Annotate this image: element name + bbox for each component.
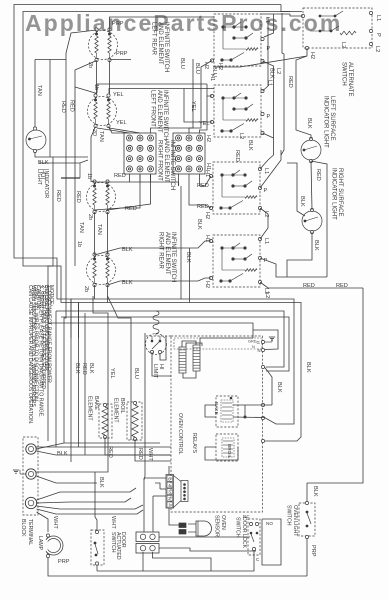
label 2b E3: [87, 214, 93, 220]
wire hi-limit bottom: [152, 352, 171, 376]
label BLK right column mid: [196, 219, 202, 230]
svg-text:N: N: [258, 348, 261, 353]
wire neutral lug fan-out: [36, 471, 95, 473]
svg-text:L2: L2: [275, 68, 281, 74]
svg-text:BROIL: BROIL: [226, 444, 232, 459]
terminal H2 S2: [210, 120, 213, 123]
wire WHT vertical: [144, 333, 145, 480]
label BLK above left ind: [306, 118, 312, 129]
svg-text:RED: RED: [287, 76, 293, 88]
svg-text:INFINITE SWITCH: INFINITE SWITCH: [162, 90, 168, 140]
wire lower YEL vertical: [93, 296, 108, 440]
wire E2 top feed diagonal: [75, 87, 97, 94]
door lock switch dashed box: [248, 519, 260, 555]
svg-text:BLK: BLK: [247, 140, 253, 151]
transformer primary winding: [179, 347, 186, 373]
wire bake relay to bus: [205, 405, 216, 417]
svg-text:RED: RED: [69, 100, 75, 112]
wire transformer bottom: [183, 371, 196, 378]
terminal GRD oven control: [261, 340, 264, 343]
svg-text:LIMIT: LIMIT: [152, 364, 158, 379]
svg-text:BLK: BLK: [74, 363, 80, 374]
svg-text:RED: RED: [197, 204, 209, 210]
svg-text:AND ELEMENT: AND ELEMENT: [156, 90, 162, 133]
oven control top right wire box: [253, 330, 278, 350]
terminal broil out: [261, 416, 264, 419]
wire grids to S3 H1: [200, 176, 212, 186]
svg-text:L1: L1: [267, 80, 273, 86]
terminal P S3: [258, 186, 261, 189]
wire broil relay wires: [205, 447, 238, 460]
connector pair block upper: [136, 532, 159, 542]
label INFINITE SWITCH AND ELEMENT LEFT REAR: [151, 22, 169, 72]
wire E3 to E4 chain: [94, 212, 96, 255]
wire lower BLU vertical: [108, 296, 132, 440]
label RED E3 left: [75, 191, 81, 203]
wire E1 to E2 chain left: [96, 61, 98, 95]
svg-text:1b: 1b: [76, 241, 82, 247]
wire BLK bus middle vertical: [180, 186, 182, 299]
wire bus D vertical: [79, 303, 302, 442]
label TAN pair lower: [78, 222, 84, 233]
label 1b grid left: [86, 173, 92, 179]
wire S2 L2 out: [263, 133, 274, 138]
alternate switch box: [303, 8, 372, 48]
svg-text:SWITCH: SWITCH: [235, 517, 241, 538]
wire dark stub: [61, 177, 80, 179]
svg-text:AppliancePartsPros.com: AppliancePartsPros.com: [25, 10, 342, 36]
svg-text:RIGHT FRONT: RIGHT FRONT: [157, 140, 163, 181]
wire door switch top: [95, 472, 97, 531]
oven control inner top dashed rect: [174, 338, 262, 349]
element E2 left front surface element: [88, 97, 117, 126]
terminal block lug 3: [25, 497, 36, 508]
svg-text:L1: L1: [375, 15, 381, 21]
svg-text:LEFT SURFACE: LEFT SURFACE: [329, 96, 335, 141]
label ALTERNATE SWITCH: [341, 62, 354, 96]
label LAMP: [37, 536, 43, 551]
terminal block dashed box: [23, 437, 38, 515]
svg-text:ELEMENT: ELEMENT: [113, 398, 119, 423]
wire hot light RED down to lower: [48, 266, 53, 323]
border outer step to alternate switch: [281, 5, 302, 12]
svg-text:L2: L2: [264, 292, 270, 298]
wire bake row: [233, 404, 265, 406]
wire BLK bus middle vertical 2: [189, 248, 191, 303]
svg-text:TAN: TAN: [96, 224, 102, 235]
terminal H1 S4: [209, 239, 212, 242]
svg-text:BLK: BLK: [57, 451, 68, 457]
svg-text:LEFT FRONT: LEFT FRONT: [150, 90, 156, 127]
svg-text:OVEN CONTROL: OVEN CONTROL: [177, 413, 183, 455]
svg-text:YEL: YEL: [116, 120, 127, 126]
wire left ind top from alternate: [296, 48, 311, 139]
label TAN E2: [98, 131, 104, 142]
element E3 right front surface element: [87, 183, 116, 212]
infinite switch S1 (left rear): [214, 14, 261, 66]
label L2 under S4: [264, 292, 270, 298]
label RIGHT SURFACE INDICATOR LIGHT: [331, 168, 344, 220]
connector block left (infinite switch plug left): [124, 133, 156, 174]
svg-text:YEL: YEL: [113, 92, 124, 98]
terminal L1 S4: [258, 237, 261, 240]
svg-text:2b: 2b: [83, 286, 89, 292]
wire YEL channel S2: [184, 89, 212, 123]
wire right ind bottom: [287, 232, 312, 277]
svg-text:BLU: BLU: [194, 63, 200, 74]
wire S4 L2 out to RED channel: [260, 282, 363, 288]
label RED bake: [107, 446, 113, 458]
svg-text:P: P: [267, 114, 271, 120]
svg-text:H2: H2: [204, 212, 210, 219]
label RELAYS: [191, 433, 197, 454]
label BLU S1: [211, 66, 217, 77]
notice text block: [27, 285, 54, 424]
svg-text:BLK: BLK: [98, 477, 104, 488]
oven sensor probe: [179, 523, 186, 528]
svg-text:RED: RED: [114, 173, 126, 179]
svg-text:LIGHT: LIGHT: [36, 169, 42, 186]
door lock outer box: [262, 519, 281, 565]
label DOOR ACTUATED SWITCH: [110, 532, 126, 560]
svg-text:TAN: TAN: [36, 85, 42, 96]
svg-text:INFINITE SWITCH: INFINITE SWITCH: [170, 232, 176, 282]
wire L1 S2 up channel: [263, 17, 269, 91]
wire diagonal alternate H2 to middle: [214, 56, 307, 67]
svg-text:RED: RED: [303, 283, 315, 289]
svg-text:RIGHT REAR: RIGHT REAR: [158, 232, 164, 270]
element E1 left rear surface element: [89, 31, 118, 60]
wire right bus down BLK: [307, 288, 363, 483]
terminal L2 S3: [258, 206, 261, 209]
svg-text:RED: RED: [60, 101, 66, 113]
svg-text:L2: L2: [340, 42, 346, 48]
wire L1 loop to bake: [265, 367, 273, 405]
label WHT lower: [147, 448, 153, 461]
svg-text:BLK: BLK: [312, 486, 318, 497]
wire WHT to lamp: [37, 512, 49, 532]
label OVEN SENSOR: [214, 515, 227, 537]
svg-text:BLK: BLK: [276, 382, 282, 393]
terminal L2 S1: [261, 59, 264, 62]
label RED below hot light: [55, 190, 61, 202]
svg-text:BAKE: BAKE: [93, 396, 99, 410]
svg-text:RED: RED: [315, 169, 321, 181]
svg-text:YEL: YEL: [199, 121, 210, 127]
terminal P S2: [261, 112, 264, 115]
terminal bake out: [261, 403, 264, 406]
svg-text:SWITCH: SWITCH: [341, 62, 347, 86]
svg-text:BLU: BLU: [179, 58, 185, 69]
label INFINITE SWITCH AND ELEMENT LEFT FRONT: [150, 90, 168, 140]
label WHT door switch: [110, 516, 116, 529]
wire bus horizontal 1: [56, 311, 284, 367]
svg-text:GRD: GRD: [248, 340, 257, 344]
wire E1 to E2 chain right: [109, 61, 111, 95]
wire lower left RED vertical: [78, 303, 80, 448]
svg-text:BLK: BLK: [196, 219, 202, 230]
svg-text:H2: H2: [203, 62, 209, 69]
wires bottom connectors: [159, 536, 250, 538]
svg-text:L1: L1: [264, 17, 270, 23]
wire E1 bottom left to bus: [75, 61, 97, 259]
terminal H2 S1: [210, 59, 213, 62]
svg-text:1b: 1b: [86, 173, 92, 179]
wire RED to S3: [260, 150, 281, 188]
wire E4 bottom BLK to S4 H2: [108, 278, 212, 285]
wire right ind left BLK: [287, 163, 305, 216]
infinite switch S3 (right front): [213, 162, 260, 214]
svg-text:INDICATOR LIGHT: INDICATOR LIGHT: [323, 96, 329, 148]
svg-text:TERMINAL: TERMINAL: [27, 519, 33, 545]
svg-text:BLK: BLK: [299, 196, 305, 207]
label H2 right grid: [205, 135, 211, 142]
wire transformer top links: [182, 341, 196, 347]
wire RED hot light down: [52, 157, 54, 266]
wire bus horizontal 3: [48, 323, 253, 338]
bake element: [99, 404, 112, 438]
svg-text:RED: RED: [81, 363, 87, 375]
relay BAKE: [216, 396, 238, 427]
svg-text:AND ELEMENT: AND ELEMENT: [164, 232, 170, 275]
wire L1 lug fan-out: [36, 446, 171, 448]
svg-text:PRP: PRP: [58, 559, 70, 565]
wire E1 right top to S1: [110, 17, 215, 31]
wire E1 left feed diagonal: [66, 30, 97, 60]
terminal P alternate: [369, 29, 372, 32]
wire lower left BLK vertical: [70, 299, 72, 462]
svg-text:SENSOR: SENSOR: [214, 515, 220, 537]
connector block right (infinite switch plug right): [173, 133, 205, 174]
label BAKE ELEMENT: [87, 396, 100, 421]
terminal H1 S3: [209, 174, 212, 177]
terminal element out: [261, 439, 264, 442]
wire bottom run to door lock C: [97, 551, 254, 572]
label BLK mid lower: [98, 477, 104, 488]
terminal L1 S2: [261, 89, 264, 92]
svg-text:RED: RED: [137, 448, 143, 460]
ground symbol terminal block: [20, 473, 26, 475]
svg-text:RED: RED: [197, 183, 209, 189]
svg-text:BLK: BLK: [269, 68, 275, 79]
indicator light left surface: [301, 140, 321, 160]
label HOT INDICATOR LIGHT: [36, 169, 49, 198]
svg-text:BLK: BLK: [305, 362, 311, 373]
wire between indicators: [311, 161, 312, 210]
transformer secondary winding: [193, 345, 200, 371]
svg-text:H2: H2: [204, 281, 210, 288]
label BLK mid channel: [247, 140, 253, 151]
wire lower left BLK 2 vertical: [84, 313, 86, 455]
svg-text:1b: 1b: [93, 84, 99, 90]
wire lug3 fan-out: [37, 488, 137, 500]
svg-text:INDICATOR LIGHT: INDICATOR LIGHT: [331, 168, 337, 220]
svg-text:BLOCK: BLOCK: [20, 519, 26, 537]
wire broil junction: [244, 416, 247, 419]
svg-text:ELEMENT: ELEMENT: [87, 396, 93, 421]
label 2b E4: [83, 286, 89, 292]
svg-text:ALTERNATE: ALTERNATE: [347, 62, 353, 96]
label BLK lower bus: [276, 382, 282, 393]
label RED below left ind: [315, 169, 321, 181]
wire bake out to bus: [265, 404, 273, 406]
label 2D E2: [91, 129, 97, 136]
svg-text:N: N: [252, 345, 255, 349]
svg-text:AND ELEMENT: AND ELEMENT: [163, 140, 169, 183]
wire E2 left top feed: [97, 84, 207, 93]
label BLK under S3 column: [185, 252, 191, 263]
wire grids to S3 H2 RED: [189, 186, 211, 208]
svg-text:BLK: BLK: [306, 118, 312, 129]
svg-text:H1: H1: [209, 74, 215, 81]
oven control dashed box: [171, 336, 263, 512]
terminal L1 S3: [258, 167, 261, 170]
wire E4 top BLK to S4 H1: [95, 241, 212, 255]
label BLK lower right bus: [305, 362, 311, 373]
wire hot light bottom run: [35, 153, 88, 158]
svg-text:INFINITE SWITCH: INFINITE SWITCH: [169, 140, 175, 190]
wire TAN horizontal to E1 feed: [35, 59, 66, 61]
wire E1 PRP right: [110, 59, 132, 61]
wire top feed from border to S1: [290, 14, 303, 16]
wire E3 right to grid col: [108, 174, 151, 210]
label BLU left of S1: [179, 58, 185, 69]
indicator light hot surface: [26, 130, 46, 150]
svg-text:OVEN LIGHT: OVEN LIGHT: [292, 505, 298, 537]
wire S1 L2 to right channel: [263, 61, 274, 160]
terminal L2 alternate: [369, 42, 372, 45]
wire TAN left bus: [34, 60, 36, 128]
indicator light right surface: [302, 211, 322, 231]
svg-text:WHT: WHT: [110, 516, 116, 529]
border inner frame: [23, 12, 290, 339]
wire E2 right top feed: [109, 89, 214, 94]
svg-text:DOOR LOCK: DOOR LOCK: [241, 517, 247, 549]
label H1 right grid: [205, 163, 211, 170]
label INFINITE SWITCH AND ELEMENT RIGHT REAR: [158, 232, 176, 282]
svg-text:P: P: [267, 46, 271, 52]
terminal block lug 1: [26, 444, 36, 454]
terminal L2 S4: [258, 280, 261, 283]
svg-text:LAMP: LAMP: [37, 536, 43, 551]
svg-text:TAN: TAN: [78, 222, 84, 233]
svg-text:L1: L1: [263, 168, 269, 174]
infinite switch S2 (left front): [214, 85, 261, 137]
terminal L1 oven control: [261, 365, 264, 368]
svg-text:SWITCH: SWITCH: [286, 505, 292, 526]
wire PRP up to oven light switch: [306, 539, 308, 577]
svg-text:G: G: [257, 340, 260, 345]
label HI LIMIT: [152, 364, 164, 379]
svg-text:BLK: BLK: [313, 240, 319, 251]
wire bus C vertical: [71, 299, 294, 424]
wire E2 to E3 chain left: [91, 127, 96, 182]
broil element: [127, 402, 142, 440]
wire broil elem bottom to board: [135, 439, 171, 461]
svg-text:BROIL: BROIL: [119, 398, 125, 414]
svg-text:RIGHT SURFACE: RIGHT SURFACE: [337, 168, 343, 217]
svg-text:INFINITE SWITCH: INFINITE SWITCH: [163, 22, 169, 72]
connector pair block lower: [136, 544, 159, 554]
wire H2 channel S1: [189, 61, 212, 134]
wire right RED return up: [311, 161, 327, 277]
svg-text:PRP: PRP: [112, 21, 124, 27]
wire hi-limit choke feed: [153, 311, 159, 336]
label 2b E1: [87, 62, 93, 68]
svg-text:PRP: PRP: [310, 545, 316, 557]
svg-text:RED: RED: [336, 283, 348, 289]
wire lamp terminals link: [46, 537, 48, 540]
label 1b E4: [76, 241, 82, 247]
alternate switch contacts: [319, 15, 322, 18]
wire S3 L2 down to S4: [260, 208, 268, 239]
label L2 mid right: [238, 133, 244, 139]
svg-text:L2: L2: [374, 46, 380, 52]
relay BAKE contact: [230, 397, 233, 400]
wire P drop S1: [264, 14, 274, 37]
wire BLU channel: [151, 59, 194, 134]
label BROIL ELEMENT: [113, 398, 126, 423]
terminal H2 S4: [209, 276, 212, 279]
svg-text:RELAYS: RELAYS: [191, 433, 197, 454]
label RED broil: [137, 448, 143, 460]
svg-text:2b: 2b: [87, 214, 93, 220]
wire RED channel right of S2: [281, 57, 284, 155]
svg-text:L2: L2: [238, 133, 244, 139]
wire hi-limit bottom 2: [160, 336, 166, 360]
hi-limit thermostat: [146, 334, 167, 355]
wire bus horizontal 2: [61, 317, 289, 371]
wire L1 top S1: [261, 13, 290, 15]
terminal H1 S2: [210, 94, 213, 97]
terminal H2 alternate: [305, 46, 308, 49]
label BLK left of right ind: [299, 196, 305, 207]
svg-text:BLK: BLK: [185, 252, 191, 263]
svg-text:YEL: YEL: [109, 368, 115, 379]
wire left bus RED 2: [69, 100, 75, 112]
relay BROIL: [216, 434, 238, 461]
terminal P S4: [258, 256, 261, 259]
wire strip top feed: [168, 466, 170, 475]
wire left bus mid vertical: [49, 60, 51, 158]
svg-text:BAKE: BAKE: [213, 402, 219, 415]
label INFINITE SWITCH AND ELEMENT RIGHT FRONT: [157, 140, 175, 190]
label 1b E2: [93, 84, 99, 90]
svg-text:H1: H1: [204, 170, 210, 177]
svg-text:CAN CAUSE IMPROPER AND DANGERO: CAN CAUSE IMPROPER AND DANGEROUS OPERATI…: [27, 285, 33, 424]
label PRP oven light switch: [310, 545, 316, 557]
wires connector to board: [144, 477, 166, 479]
svg-text:P: P: [375, 33, 381, 37]
wire bake elem bottom to board: [105, 437, 171, 455]
svg-text:H2: H2: [205, 135, 211, 142]
border outer frame: [14, 5, 281, 339]
oven control top stub: [146, 335, 171, 337]
wires above left grid: [97, 128, 130, 133]
svg-text:NO: NO: [266, 521, 273, 526]
wire E4 bottom exits: [94, 285, 96, 299]
svg-text:WHT: WHT: [52, 516, 58, 529]
wire strip bottom to sensor: [169, 508, 179, 525]
label L2 top right: [340, 42, 346, 48]
wire lug1 to relays: [36, 443, 160, 449]
svg-text:BLU: BLU: [133, 368, 139, 379]
terminal H2 S3: [209, 206, 212, 209]
infinite switch S4 (right rear): [213, 235, 260, 287]
svg-text:RED: RED: [75, 191, 81, 203]
svg-text:P: P: [264, 188, 268, 194]
wire left bus down 1: [64, 258, 66, 443]
